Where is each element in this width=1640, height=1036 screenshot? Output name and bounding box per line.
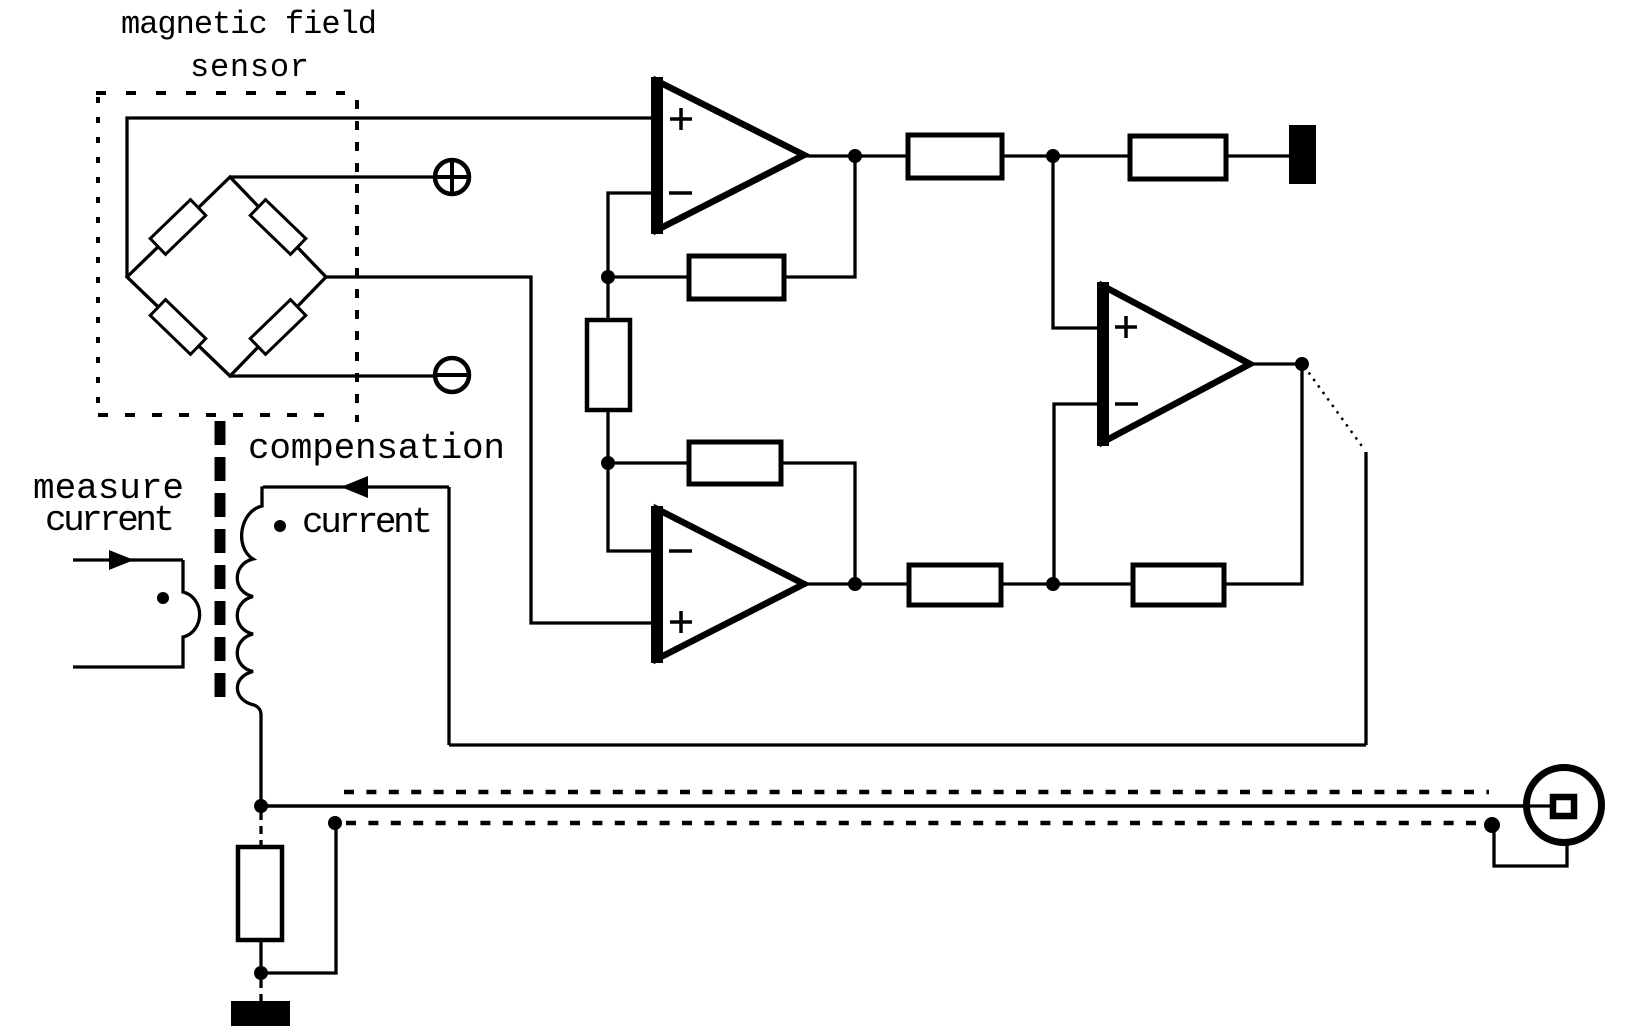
bridge resistor top-left [150, 200, 206, 255]
transformer secondary coil [237, 488, 263, 806]
cable shield lower dotted line [346, 821, 1484, 826]
wire bridge left corner up and over to op-amp U1 plus input [127, 118, 652, 277]
wire U3 minus input down to node F [1054, 404, 1097, 584]
svg-text:compensation: compensation [248, 428, 505, 469]
wire node B to resistor R5 [606, 277, 609, 320]
node K [254, 966, 268, 980]
secondary winding polarity dot [274, 520, 286, 532]
wire R3 to node E [1002, 154, 1130, 157]
wire node C to resistor R6 [608, 461, 689, 464]
coax connector outer ring [1527, 768, 1602, 843]
wire bridge bottom corner to minus terminal [230, 374, 434, 377]
sensor dotted box right edge [355, 100, 359, 422]
wire compensation loop up to coil feed [447, 487, 450, 745]
resistor R4 (top row second) [1130, 136, 1226, 179]
dashed wire node K to ground [259, 980, 262, 1001]
op-amp U1 [651, 77, 804, 234]
op-amp U2 [651, 506, 804, 663]
wire U1 output to node A [805, 154, 908, 157]
node E [1046, 149, 1060, 163]
wire node C to U2 minus input [608, 463, 651, 551]
node I (shield left) [328, 816, 342, 830]
op-amp U3 [1097, 282, 1250, 446]
svg-text:magnetic field: magnetic field [121, 6, 377, 43]
measure current arrowhead [109, 550, 134, 570]
node J (shield right) [1484, 817, 1500, 833]
wire compensation loop right side down [1364, 452, 1367, 745]
cable centre conductor wire [261, 804, 1552, 808]
dashed wire node H to shunt resistor [259, 812, 262, 847]
wire bridge top corner to plus terminal [230, 175, 434, 178]
resistor R7 (bottom row first) [909, 565, 1001, 605]
wire U3 output [1251, 362, 1302, 365]
node A (U1 output) [848, 149, 862, 163]
wire R7 to node F [1001, 582, 1133, 585]
wire R5 to node C [606, 410, 609, 463]
wire R6 to node D (U2 output) [781, 463, 855, 585]
svg-text:current: current [302, 502, 433, 543]
minus supply terminal [433, 358, 471, 392]
primary winding polarity dot [157, 592, 169, 604]
output terminal black bar [1289, 125, 1316, 184]
ground bar [231, 1001, 290, 1026]
bridge diamond wiring [127, 177, 326, 376]
transformer core dashed line [215, 421, 226, 702]
wire U1 feedback down from node A [784, 156, 855, 277]
wire coil feed top [263, 485, 449, 488]
wire R2 to node B [608, 275, 689, 278]
resistor R6 (U2 feedback) [689, 442, 781, 484]
resistor R5 (gain setting, vertical) [587, 320, 630, 410]
wire U1 minus input [608, 193, 651, 277]
node D (U2 output) [848, 577, 862, 591]
wire R4 to output terminal [1226, 154, 1289, 157]
resistor R3 (top row first) [908, 135, 1002, 178]
node B [601, 270, 615, 284]
wire R8 up to node G (U3 output) [1224, 364, 1302, 584]
sensor dotted box bottom edge [98, 413, 340, 417]
wire centre conductor into pin [1527, 804, 1553, 807]
node C [601, 456, 615, 470]
bridge resistor bottom-right [250, 300, 306, 355]
svg-text:sensor: sensor [190, 49, 309, 86]
compensation current arrowhead [341, 476, 368, 498]
wire node E down to op-amp U3 plus input [1053, 156, 1097, 328]
wire compensation loop bottom [449, 743, 1366, 746]
cable shield upper dotted line [344, 790, 1489, 795]
wire diagonal from node G [1304, 366, 1364, 449]
svg-text:current: current [45, 500, 175, 541]
transformer primary half-turn [73, 560, 200, 667]
wire bridge right corner to op-amp U2 plus input [326, 277, 652, 623]
wire R9 to node K [259, 940, 262, 966]
wire shield left down to node K [261, 823, 336, 973]
node F [1046, 577, 1060, 591]
resistor R8 (bottom row second) [1133, 565, 1224, 605]
wire U2 output [805, 582, 909, 585]
bridge resistor top-right [250, 200, 306, 255]
sensor dotted box left edge [96, 97, 100, 415]
measure current input arrow wire [73, 558, 183, 561]
bridge resistor bottom-left [150, 300, 206, 355]
wire shield right to connector body [1494, 825, 1567, 866]
node G (U3 output) [1295, 357, 1309, 371]
shunt resistor R9 [238, 847, 282, 940]
coax connector centre pin [1553, 797, 1574, 816]
resistor R2 (U1 feedback) [689, 256, 784, 299]
node H (coil to cable) [254, 799, 268, 813]
sensor dotted box top edge [96, 91, 345, 95]
plus supply terminal [433, 158, 471, 196]
